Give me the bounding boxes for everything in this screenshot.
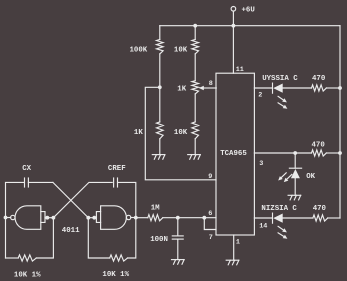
junction top rail / 10K divider [193,24,197,28]
wire OK LED top lead [294,153,296,168]
wire 100N top lead [177,218,179,236]
wire crossover CX to gate2 input [53,182,88,217]
svg-text:11: 11 [236,66,244,74]
node OK LED tap [293,151,297,155]
wire 10K top lead [194,26,196,40]
svg-text:100N: 100N [150,236,168,244]
resistor 10K upper [192,40,199,54]
node gate2 inputs tied [92,216,96,220]
LED VYSSIA C cathode bar [272,83,274,93]
resistor 470 (pin2) [312,85,327,91]
svg-text:10K 1%: 10K 1% [14,272,41,280]
node pin7 tap [202,216,206,220]
wire 470 to rail pin3 [326,152,340,154]
gate1 output bubble [11,215,15,219]
resistor 100K [157,40,164,54]
svg-text:14: 14 [259,223,267,231]
svg-text:NIZSIA C: NIZSIA C [261,205,297,213]
LED VYSSIA emission arrows [278,96,284,100]
node gate2 input/feedback [86,216,90,220]
svg-text:470: 470 [313,205,327,213]
node gate1 input/feedback [52,216,56,220]
gate1 input tie wire [45,217,53,219]
resistor 10K lower [192,122,199,139]
svg-text:1M: 1M [151,205,160,213]
capacitor 100N [172,235,183,237]
wire OK LED bottom lead [294,178,296,195]
wire pin 7 [204,218,216,230]
junction top rail / pin 11 [232,24,236,28]
gate2 output wire [131,217,136,219]
wire pin 3 [254,152,311,154]
svg-text:OK: OK [306,173,315,181]
LED NIZSIA C triangle [273,214,283,223]
resistor 10K 1% (gate2 feedback) [110,255,128,261]
wire gate1 feedback left leg [6,257,19,259]
ground right divider [188,154,201,156]
resistor 1K lower left [157,122,164,139]
resistor 1M [148,215,163,221]
wire node tap to pin 9 [145,87,216,180]
svg-text:9: 9 [208,173,212,181]
ground pin 1 [226,259,239,261]
wire 10K to pot [194,54,196,81]
supply terminal +6V [231,7,236,12]
gate2 input stubs [96,212,100,223]
svg-text:470: 470 [312,75,326,83]
node divider tap [158,85,162,89]
wire supply stub [232,11,234,26]
wire 1M to pin 6 [163,217,216,219]
capacitor CX [24,178,26,187]
gate2 input tie wire [88,217,96,219]
pin 1 wire [233,235,235,260]
wire top rail [160,25,340,27]
potentiometer 1K body [192,81,199,94]
wire gate1 feedback right leg [36,218,53,258]
LED OK emission arrows [281,173,286,178]
wire 10K lower to ground [194,139,196,155]
svg-text:TCA965: TCA965 [220,150,247,158]
wire CREF to gate2 output rail [118,182,136,217]
svg-text:7: 7 [209,234,213,242]
potentiometer wiper arrow [203,87,216,89]
wire gate2 output to 1M [136,217,148,219]
LED NIZSIA emission arrows [278,226,284,230]
svg-text:CX: CX [22,165,31,173]
wire 100K bottom to junction [159,54,161,122]
svg-text:10K 1%: 10K 1% [102,271,129,279]
node rail pin2 [338,86,342,90]
nand gate U2A 4011 body [15,206,41,230]
wire 100N bottom lead [177,239,179,260]
pin 11 wire [232,26,234,73]
node gate1 output junction [4,216,8,220]
node gate2 output junction [134,216,138,220]
svg-text:1: 1 [236,239,240,247]
gate1 output wire [6,217,11,219]
svg-text:3: 3 [259,160,263,168]
wire pin 2 [254,87,272,89]
gate2 output bubble [126,215,130,219]
svg-text:1K: 1K [177,86,186,94]
LED VYSSIA C triangle [273,84,283,93]
svg-text:2: 2 [258,92,262,100]
wire LED to 470 [283,87,312,89]
capacitor CREF [113,178,115,187]
svg-text:UYSSIA C: UYSSIA C [262,75,298,83]
wire 100K top lead [159,26,161,40]
wire left rail [6,182,25,258]
wire pin 14 [254,217,272,219]
svg-text:CREF: CREF [108,165,126,173]
wire CX to crossover [28,181,53,183]
resistor 10K 1% (gate1 feedback) [18,255,36,261]
svg-text:8: 8 [209,80,213,88]
svg-text:+6U: +6U [242,7,255,15]
svg-text:10K: 10K [174,129,188,137]
wire LED to 470 pin14 [283,217,313,219]
ground OK LED [288,194,301,196]
gate1 input stubs [41,212,45,223]
wire right rail [339,26,341,218]
wire 470 to rail [326,87,340,89]
wire gate2 feedback left leg [88,218,109,258]
svg-text:6: 6 [208,210,212,218]
LED OK triangle [291,169,300,178]
LED NIZSIA C cathode bar [272,213,274,223]
wire 470 to rail pin14 [328,217,340,219]
op-amp/window comparator U1 TCA965 body [216,73,254,235]
node gate1 inputs tied [45,216,49,220]
resistor 470 (pin14) [313,215,328,221]
wire gate2 feedback right leg [128,218,136,258]
nand gate U2B 4011 body [101,206,127,230]
wire 1K to ground [159,139,161,155]
svg-text:470: 470 [312,142,326,150]
ground 100N [172,259,185,261]
node 100N tap [176,216,180,220]
svg-text:10K: 10K [174,47,188,55]
svg-text:4011: 4011 [62,227,80,235]
LED OK cathode bar [289,167,301,169]
svg-text:100K: 100K [130,47,148,55]
wire crossover gate1 input to CREF [53,182,112,217]
ground left divider [152,154,165,156]
node rail pin3 [338,151,342,155]
svg-text:1K: 1K [134,129,143,137]
resistor 470 (pin3) [312,150,327,156]
wire pot to 10K lower [194,94,196,122]
